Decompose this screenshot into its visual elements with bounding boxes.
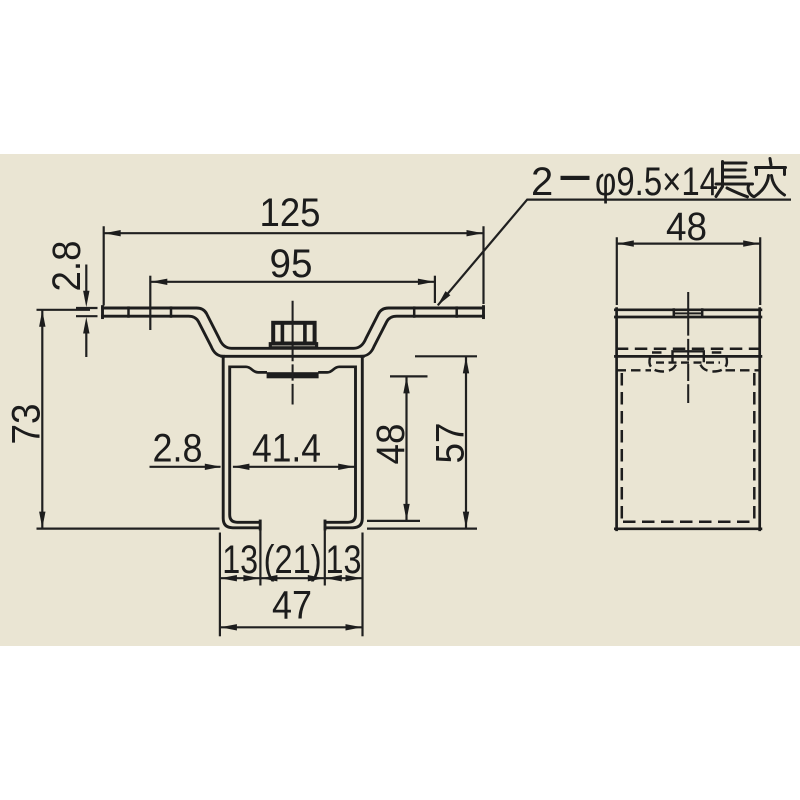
dimension 95 (slot pitch) — [150, 276, 435, 330]
dimension 41.4 (rail inner width) — [233, 466, 355, 468]
svg-text:13: 13 — [222, 538, 258, 582]
svg-text:(21): (21) — [264, 538, 322, 582]
hidden spring and bolt head details (dashed) — [617, 353, 761, 372]
top mounting plate (front view) — [103, 307, 484, 357]
kanji "ana" (hole) — [755, 159, 786, 197]
svg-text:13: 13 — [326, 538, 362, 582]
kanji "naga" (long) — [716, 162, 754, 197]
svg-text:2: 2 — [531, 160, 553, 204]
dimension 57 (rail outer height) — [367, 356, 477, 528]
svg-text:φ9.5×14: φ9.5×14 — [595, 160, 718, 204]
side view outline — [615, 309, 761, 530]
dimension 47 (rail outer width) — [220, 586, 363, 637]
leader line for slotted holes — [438, 200, 791, 306]
dimension 2.8 (rail wall thickness) — [150, 466, 221, 468]
svg-text:48: 48 — [369, 424, 413, 465]
svg-text:47: 47 — [272, 584, 312, 628]
svg-text:48: 48 — [666, 205, 707, 249]
svg-text:2.8: 2.8 — [153, 427, 203, 471]
dimension 125 (plate width) — [104, 226, 484, 305]
dimension 2.8 (plate thickness, left) — [76, 265, 98, 358]
T-bolt head bar inside rail — [267, 372, 319, 378]
svg-text:41.4: 41.4 — [252, 427, 321, 471]
svg-text:57: 57 — [429, 423, 473, 464]
leaf spring inside rail — [231, 367, 354, 373]
hidden rail top edge (dashed) — [616, 348, 761, 351]
hex nut on top of rail — [270, 323, 316, 348]
svg-text:95: 95 — [270, 242, 313, 286]
vertical centreline (front view) — [292, 301, 294, 405]
dimensions 13 (21) 13 (bottom opening) — [220, 530, 363, 586]
T-bolt head profile (side view, solid) — [673, 351, 704, 362]
cream drawing panel — [0, 154, 800, 646]
slotted-hole edge ticks on plate — [129, 306, 457, 317]
svg-text:73: 73 — [5, 404, 49, 445]
svg-text:2.8: 2.8 — [45, 241, 89, 292]
dimension 73 (overall height) — [37, 310, 220, 529]
dimension 48 (rail inner height) — [367, 376, 428, 521]
dimension 48 (side view depth) — [617, 237, 760, 305]
C-rail channel body (front view) — [222, 356, 363, 529]
slot edges on side view top plate — [674, 308, 702, 318]
svg-text:125: 125 — [260, 191, 321, 235]
hidden rail walls (dashed) — [622, 373, 755, 522]
vertical centreline (side view) — [687, 292, 689, 403]
